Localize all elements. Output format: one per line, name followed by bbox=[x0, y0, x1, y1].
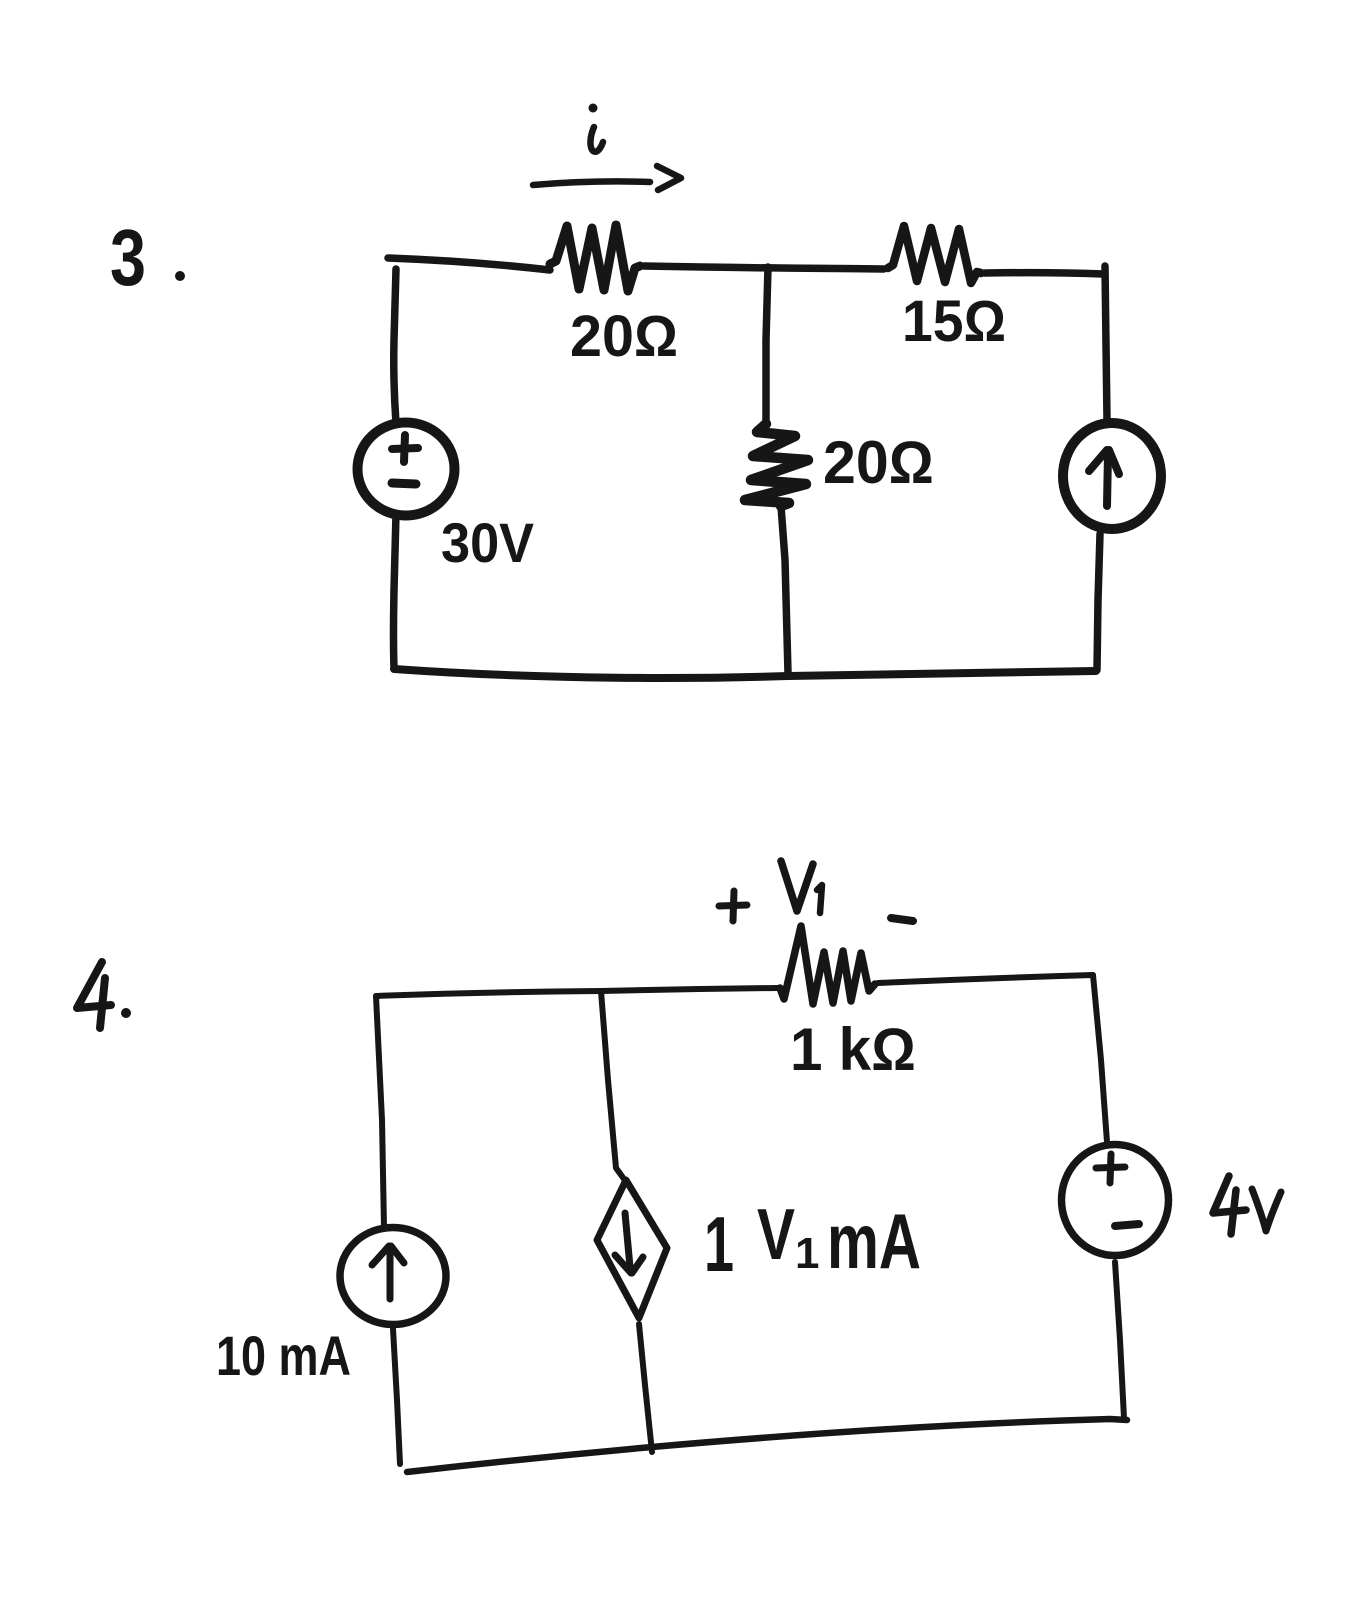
wire top-right (circuit 4) bbox=[878, 975, 1093, 983]
svg-text:3: 3 bbox=[110, 213, 146, 302]
resistor 20ohm middle bbox=[745, 424, 808, 506]
svg-text:1: 1 bbox=[795, 1229, 819, 1278]
resistor 15ohm bbox=[888, 226, 981, 283]
plus sign of V1 bbox=[719, 891, 747, 921]
svg-text:15Ω: 15Ω bbox=[902, 289, 1006, 354]
bottom wire circuit4 bbox=[407, 1419, 1127, 1472]
current source circuit3 bbox=[1063, 423, 1161, 529]
wire left vertical bottom (circuit 4) bbox=[393, 1329, 400, 1464]
dependent current source diamond bbox=[597, 1180, 667, 1318]
label "3." bbox=[110, 213, 185, 302]
wire top-right bbox=[985, 273, 1103, 274]
current label i bbox=[589, 104, 604, 152]
svg-text:1: 1 bbox=[704, 1200, 734, 1288]
current source 10mA bbox=[340, 1228, 446, 1325]
voltage source 4V bbox=[1062, 1145, 1169, 1256]
label "4." bbox=[77, 962, 131, 1028]
wire left vertical (circuit 4) bbox=[376, 996, 384, 1227]
wire right vertical bottom bbox=[1097, 534, 1100, 670]
wire middle vertical top (circuit 4) bbox=[601, 991, 624, 1179]
current arrow i bbox=[533, 166, 681, 190]
resistor 20ohm top bbox=[550, 225, 640, 291]
svg-text:1 kΩ: 1 kΩ bbox=[790, 1016, 916, 1083]
wire middle vertical top bbox=[766, 267, 768, 424]
wire right vertical top bbox=[1105, 266, 1107, 419]
svg-text:V: V bbox=[757, 1195, 795, 1275]
wire top-left (circuit 4) bbox=[376, 988, 777, 996]
wire middle vertical bottom bbox=[781, 506, 788, 673]
label 1 V1 mA bbox=[704, 1195, 921, 1288]
minus sign of V1 bbox=[891, 918, 913, 921]
svg-text:mA: mA bbox=[827, 1197, 921, 1285]
wire top-middle bbox=[644, 266, 884, 269]
svg-text:10 mA: 10 mA bbox=[216, 1324, 351, 1387]
wire left vertical bottom bbox=[394, 514, 397, 668]
wire middle vertical bottom (circuit 4) bbox=[639, 1324, 652, 1452]
svg-text:30V: 30V bbox=[441, 511, 534, 574]
resistor 1kohm bbox=[780, 926, 875, 1004]
svg-text:20Ω: 20Ω bbox=[570, 304, 678, 369]
label 4V bbox=[1213, 1176, 1281, 1234]
wire right vertical bottom (circuit 4) bbox=[1115, 1262, 1124, 1418]
wire left vertical top bbox=[394, 269, 396, 423]
label V1 bbox=[781, 861, 822, 913]
wire right vertical top (circuit 4) bbox=[1093, 975, 1107, 1142]
svg-text:20Ω: 20Ω bbox=[823, 429, 934, 496]
voltage source 30V bbox=[358, 423, 455, 516]
bottom wire circuit3 bbox=[394, 669, 1096, 678]
wire top-left (circuit 3) bbox=[388, 258, 550, 270]
